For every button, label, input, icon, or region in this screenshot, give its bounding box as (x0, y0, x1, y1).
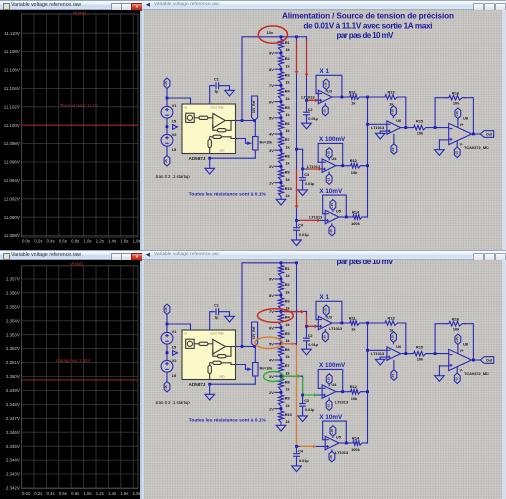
resistor R13 1k feedback (368, 96, 383, 98)
wire (219, 86, 230, 91)
svg-text:9V: 9V (269, 51, 274, 56)
op-amp U6 LT1013 (368, 123, 387, 125)
ground (298, 190, 308, 196)
svg-text:1.8s: 1.8s (133, 238, 140, 243)
svg-text:10k: 10k (417, 130, 424, 135)
svg-text:LT1013: LT1013 (301, 95, 315, 100)
bottom-left waveform window (0, 250, 142, 499)
svg-text:7V: 7V (269, 83, 274, 88)
svg-text:1.2s: 1.2s (96, 491, 104, 496)
annotation red arrow on wire B (305, 41, 309, 77)
wire tap 7V to wire B (281, 310, 307, 312)
svg-text:2.343V: 2.343V (6, 472, 20, 477)
annotation orange arrow into U5 (300, 445, 317, 449)
svg-text:10k: 10k (453, 101, 460, 106)
svg-text:de 0.01V à 11.1V avec sortie 1: de 0.01V à 11.1V avec sortie 1A maxi (304, 22, 433, 31)
svg-text:VOUT TRIM: VOUT TRIM (211, 107, 224, 110)
node 4V tap (275, 133, 281, 135)
resistor R1 1k (278, 37, 283, 53)
svg-text:0.2s: 0.2s (34, 491, 42, 496)
svg-text:11.108V: 11.108V (4, 49, 20, 54)
svg-text:11.106V: 11.106V (4, 68, 20, 73)
y axis labels (6, 277, 20, 491)
node 5V tap (275, 117, 281, 119)
wire to U3 (305, 99, 308, 102)
annotation red arrow into U5 (300, 219, 321, 223)
capacitor C2 0.01u (304, 111, 310, 113)
wire output U4 (336, 165, 348, 167)
svg-text:U5: U5 (336, 208, 342, 213)
svg-text:10V_Ref: 10V_Ref (252, 100, 256, 114)
plot grid (22, 266, 138, 489)
svg-text:0.8s: 0.8s (71, 491, 79, 496)
svg-text:0.6s: 0.6s (59, 491, 67, 496)
wire output U3 (332, 96, 347, 98)
svg-text:R6: R6 (285, 121, 291, 126)
svg-text:2.344V: 2.344V (6, 458, 20, 463)
annotation orange arrow 5V to wire A (283, 342, 296, 346)
svg-text:R2: R2 (285, 56, 291, 61)
svg-text:0.01µ: 0.01µ (308, 117, 318, 121)
svg-text:4V: 4V (269, 132, 274, 137)
svg-text:1.2s: 1.2s (96, 238, 104, 243)
x axis labels (22, 491, 141, 496)
svg-text:-15: -15 (323, 109, 327, 114)
svg-text:2.352V: 2.352V (6, 346, 20, 351)
svg-text:IN: IN (185, 107, 188, 110)
wire tap 3V to wire C (281, 375, 303, 377)
svg-text:0.0s: 0.0s (22, 491, 30, 496)
svg-text:0.2s: 0.2s (34, 238, 42, 243)
svg-text:AD587J: AD587J (189, 156, 206, 161)
annotation red ellipse around 10v (258, 26, 287, 43)
ground (302, 123, 312, 129)
annotation red ellipse around 7V (258, 309, 294, 323)
svg-text:1.4s: 1.4s (108, 238, 116, 243)
svg-text:LT1013: LT1013 (335, 400, 349, 405)
svg-text:2.355V: 2.355V (6, 305, 20, 310)
wire (166, 97, 169, 100)
power flag +15 (164, 78, 170, 89)
capacitor C3 0.01u (300, 177, 306, 179)
svg-text:11.092V: 11.092V (4, 196, 20, 201)
svg-text:X 10mV: X 10mV (319, 188, 343, 195)
svg-text:0.6s: 0.6s (59, 238, 67, 243)
svg-text:R12: R12 (350, 158, 358, 163)
svg-text:2.345V: 2.345V (6, 444, 20, 449)
svg-text:C2: C2 (308, 108, 313, 112)
annotation green ellipse around 3V (264, 372, 284, 382)
svg-text:8V: 8V (269, 67, 274, 72)
svg-text:R15: R15 (416, 118, 424, 123)
svg-text:2.346V: 2.346V (6, 430, 20, 435)
wire (166, 89, 168, 107)
svg-text:R14: R14 (352, 209, 360, 214)
net flag 10V_Ref (252, 96, 258, 121)
svg-text:R3: R3 (285, 72, 291, 77)
svg-text:U6: U6 (396, 118, 402, 123)
annotation orange line down wire A (296, 345, 298, 445)
svg-text:réglage sur 2.35V: réglage sur 2.35V (56, 358, 91, 363)
svg-text:+15: +15 (391, 109, 395, 114)
svg-text:R10: R10 (285, 186, 292, 191)
svg-text:0.8s: 0.8s (71, 238, 79, 243)
plot background (0, 10, 142, 251)
wire 10V rail (236, 37, 297, 121)
annotation green line down wire C (302, 377, 304, 393)
potentiometer Rv (253, 137, 258, 151)
op-amp U2 AD587J block (182, 104, 236, 154)
resistor R5 1k (278, 102, 283, 118)
power flag -15 (164, 156, 170, 167)
plot grid (22, 14, 138, 237)
wire output U5 (339, 216, 350, 218)
net flag Out (480, 131, 494, 138)
ground (225, 90, 235, 96)
svg-text:V(out): V(out) (70, 261, 83, 267)
svg-text:LT1013: LT1013 (329, 326, 343, 331)
svg-text:+15: +15 (323, 82, 327, 87)
bottom-right schematic window (142, 250, 506, 499)
resistor R3 1k (278, 69, 283, 85)
ground (435, 150, 445, 156)
svg-text:0.4s: 0.4s (47, 491, 55, 496)
capacitor C1 (215, 83, 217, 89)
wire C jog from wire A (295, 148, 298, 151)
svg-text:2V: 2V (269, 164, 274, 169)
svg-text:0.01µ: 0.01µ (305, 182, 315, 186)
y axis labels (4, 31, 20, 238)
node 6V tap (275, 101, 281, 103)
top-left waveform window (0, 0, 142, 250)
wire (166, 118, 168, 134)
svg-text:X 1: X 1 (320, 68, 330, 75)
svg-text:2.354V: 2.354V (6, 318, 20, 323)
node 7V tap (275, 84, 281, 86)
svg-text:+15: +15 (455, 111, 459, 116)
wire gnd rail (254, 150, 256, 158)
annotation orange ellipse around 5V (255, 337, 282, 348)
svg-text:11.110V: 11.110V (4, 31, 20, 36)
svg-text:par pas de 10 mV: par pas de 10 mV (337, 31, 395, 40)
svg-text:+15: +15 (326, 151, 330, 156)
red trace V(out) (22, 379, 138, 381)
resistor R10 1k (278, 183, 283, 199)
svg-text:1µ: 1µ (214, 90, 218, 94)
svg-text:0.0s: 0.0s (22, 238, 30, 243)
node 8V tap (275, 68, 281, 70)
svg-text:10k: 10k (351, 170, 358, 175)
svg-text:11.088V: 11.088V (4, 233, 20, 238)
annotation green arrow into U4 (304, 393, 317, 397)
resistor R4 1k (278, 85, 283, 101)
ground (205, 168, 215, 174)
resistor R8 1k (278, 150, 283, 166)
resistor R9 1k (278, 166, 283, 182)
svg-text:V+: V+ (460, 123, 464, 127)
svg-text:11.100V: 11.100V (4, 123, 20, 128)
svg-text:+15: +15 (164, 81, 168, 86)
svg-text:1.6s: 1.6s (120, 238, 128, 243)
svg-text:0.4s: 0.4s (47, 238, 55, 243)
annotation red arrow on wire A lower (295, 169, 299, 209)
svg-text:10v: 10v (267, 30, 274, 35)
svg-text:-15: -15 (164, 159, 168, 164)
svg-text:15: 15 (172, 147, 177, 152)
annotation green arrow 3V to wire C (284, 374, 301, 378)
annotation red arrow into U3 (308, 98, 318, 102)
wire (242, 120, 255, 122)
top-right schematic window (142, 0, 506, 250)
svg-text:2.347V: 2.347V (6, 416, 20, 421)
svg-text:Toutes les résistance sont à 0: Toutes les résistance sont à 0.1% (189, 192, 267, 198)
svg-text:C3: C3 (304, 173, 309, 177)
wire rail extension to wire B (297, 36, 307, 38)
node COM junction (166, 125, 169, 128)
svg-text:-15: -15 (454, 151, 458, 156)
wire + input to ground (439, 139, 448, 141)
svg-text:GND: GND (219, 150, 225, 153)
svg-text:2.348V: 2.348V (6, 402, 20, 407)
svg-text:-15: -15 (326, 178, 330, 183)
svg-text:-15: -15 (391, 147, 395, 152)
svg-text:+15: +15 (330, 203, 334, 208)
resistor R14 100k (350, 215, 364, 220)
svg-text:R1: R1 (285, 40, 291, 45)
svg-text:1V: 1V (269, 180, 274, 185)
svg-text:100k: 100k (351, 221, 360, 226)
node 3V tap (275, 149, 281, 151)
annotation red arrow into U3 (307, 324, 318, 328)
wire to U5 (297, 219, 326, 221)
svg-text:R7: R7 (285, 137, 290, 142)
svg-text:6V: 6V (269, 99, 274, 104)
svg-text:1.0s: 1.0s (83, 238, 91, 243)
svg-text:R9: R9 (285, 170, 291, 175)
annotation red arrow 7V to wire B (284, 310, 304, 314)
svg-text:11.096V: 11.096V (4, 160, 20, 165)
resistor R16 10k feedback (435, 98, 446, 128)
svg-text:Tension maxi 11.1V: Tension maxi 11.1V (60, 103, 98, 108)
svg-text:R13: R13 (388, 90, 396, 95)
svg-text:5V: 5V (269, 116, 274, 121)
svg-text:Out: Out (486, 133, 493, 137)
svg-text:2.351V: 2.351V (6, 360, 20, 365)
svg-text:11.094V: 11.094V (4, 178, 20, 183)
svg-text:V1: V1 (172, 103, 178, 108)
svg-text:U3: U3 (327, 89, 333, 94)
wire output node (472, 133, 481, 135)
svg-text:U4: U4 (331, 156, 337, 161)
svg-text:V2: V2 (172, 132, 178, 137)
svg-text:11.098V: 11.098V (4, 141, 20, 146)
svg-text:V(out): V(out) (73, 11, 86, 17)
svg-text:2.353V: 2.353V (6, 332, 20, 337)
svg-text:11.102V: 11.102V (4, 104, 20, 109)
wire summing bus (367, 97, 369, 217)
voltage source V2 (161, 134, 173, 146)
node 1V tap (275, 182, 281, 184)
wire A (295, 35, 298, 38)
red trace V(out) (22, 124, 138, 126)
svg-text:-15: -15 (329, 229, 333, 234)
plot background (0, 260, 142, 499)
annotation red line down wire B (306, 313, 308, 325)
svg-text:15: 15 (172, 119, 177, 124)
resistor R2 1k (278, 53, 283, 69)
wire B (306, 37, 308, 101)
svg-text:R11: R11 (349, 89, 357, 94)
svg-text:R8: R8 (285, 153, 291, 158)
svg-text:R4: R4 (285, 89, 291, 94)
wire tap 5V to wire A (281, 343, 297, 345)
ground ladder bottom (276, 199, 286, 205)
resistor R15 10k (411, 125, 429, 130)
x axis labels (22, 238, 141, 243)
resistor R11 1k (347, 95, 362, 100)
svg-text:X 100mV: X 100mV (319, 136, 346, 143)
ground (375, 133, 385, 139)
annotation red arrow on wire A (295, 41, 299, 75)
resistor R6 1k (278, 118, 283, 134)
svg-text:2.350V: 2.350V (6, 374, 20, 379)
svg-text:LT1013: LT1013 (335, 450, 349, 455)
wire output U6 (401, 127, 411, 129)
op-amp U8 TCA0372 (449, 123, 472, 144)
annotation red arrow into U4 (308, 167, 322, 171)
wire to U4 (302, 150, 304, 169)
svg-text:1.4s: 1.4s (108, 491, 116, 496)
svg-text:1.0s: 1.0s (83, 491, 91, 496)
node 2V tap (275, 165, 281, 167)
wire (210, 86, 215, 104)
voltage source V1 (161, 106, 173, 118)
title text (282, 12, 454, 40)
resistor R7 1k (278, 134, 283, 150)
svg-text:TCA0372_MC: TCA0372_MC (464, 145, 489, 150)
svg-text:LT1013: LT1013 (371, 125, 385, 130)
svg-text:3V: 3V (269, 148, 274, 153)
svg-text:11.090V: 11.090V (4, 215, 20, 220)
svg-text:LT1013: LT1013 (309, 214, 323, 219)
resistor R12 10k (348, 163, 363, 168)
svg-text:1.6s: 1.6s (120, 491, 128, 496)
svg-text:2.357V: 2.357V (6, 277, 20, 282)
svg-text:2.342V: 2.342V (6, 486, 20, 491)
svg-text:1.8s: 1.8s (133, 491, 140, 496)
svg-text:Alimentation / Source de tensi: Alimentation / Source de tension de préc… (282, 12, 454, 21)
capacitor C4 0.01u (294, 227, 300, 229)
svg-text:U8: U8 (463, 116, 469, 121)
node 9V tap (275, 52, 281, 54)
svg-text:V-: V- (460, 143, 463, 147)
svg-text:C1: C1 (214, 78, 219, 82)
svg-text:0.01µ: 0.01µ (299, 233, 309, 237)
svg-text:11.104V: 11.104V (4, 86, 20, 91)
ground (292, 240, 302, 246)
svg-text:Rv=10k: Rv=10k (260, 141, 273, 145)
wire (166, 146, 168, 155)
svg-text:R16: R16 (452, 90, 460, 95)
svg-text:2.356V: 2.356V (6, 291, 20, 296)
svg-text:.tran 0 2 .1 startup: .tran 0 2 .1 startup (155, 174, 190, 179)
svg-text:2.349V: 2.349V (6, 388, 20, 393)
svg-text:R5: R5 (285, 105, 291, 110)
